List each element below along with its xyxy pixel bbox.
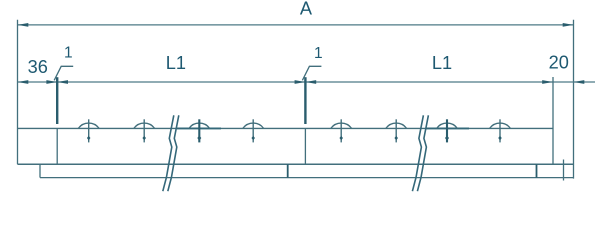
break symbol right line b: [417, 115, 428, 191]
joint tick 1 (thick, x=57.2): [56, 77, 58, 124]
leader line for left 1: [54, 66, 73, 80]
rail top overlap segment left: [177, 127, 221, 129]
end bolt: [563, 160, 565, 181]
svg-text:L1: L1: [432, 53, 452, 73]
svg-text:1: 1: [64, 44, 73, 61]
svg-text:L1: L1: [166, 53, 186, 73]
extension line right (x=573.5, down to end strip): [573, 20, 575, 179]
arrowhead L1-left at joint 2: [295, 80, 306, 84]
rail bottom / strip top edge: [18, 163, 574, 165]
leader line for middle 1: [302, 66, 321, 80]
strip left edge: [39, 164, 41, 177]
joint tick 2 (thick, x=305.4): [304, 77, 306, 124]
svg-text:1: 1: [314, 45, 323, 62]
strip bottom edge: [40, 177, 574, 179]
rail joint line 2 lower: [304, 128, 306, 164]
clip 1: [78, 119, 99, 142]
rail top overlap segment right: [426, 127, 469, 129]
clip 7 (bold): [437, 119, 458, 142]
clip 3 (bold): [189, 119, 210, 142]
clip 5: [331, 119, 352, 142]
break symbol right line a: [412, 115, 423, 191]
svg-text:36: 36: [28, 57, 48, 77]
svg-text:A: A: [300, 0, 313, 18]
break symbol left line b: [168, 115, 179, 191]
clip 4: [243, 119, 264, 142]
arrowhead 36 right at joint 1: [46, 80, 57, 84]
clip 6: [386, 119, 407, 142]
arrowhead L1-right at joint 2: [305, 80, 316, 84]
arrowhead A right: [563, 23, 574, 27]
arrowhead L1-right at rail end: [542, 80, 553, 84]
arrowhead L1-left at joint 1: [57, 80, 68, 84]
svg-text:20: 20: [549, 52, 569, 72]
extension line left (x=17.5, also left edge of rail): [17, 20, 19, 165]
extension line x=553 (rail right edge / 20 dim): [552, 77, 554, 164]
strip divider 2: [536, 164, 538, 177]
dimension line A: [18, 24, 574, 26]
clip 8: [490, 119, 511, 142]
clip 2: [134, 119, 155, 142]
break symbol left line a: [163, 115, 174, 191]
rail joint line 1 lower: [56, 128, 58, 164]
arrowhead A left: [18, 23, 29, 27]
strip divider 1: [287, 164, 289, 177]
rail top edge: [18, 127, 554, 129]
arrowhead 20 right outside: [574, 80, 585, 84]
dimension line row 2 (36 / L1 / L1 / 20 with tail): [18, 81, 596, 83]
arrowhead 36 left: [18, 80, 29, 84]
